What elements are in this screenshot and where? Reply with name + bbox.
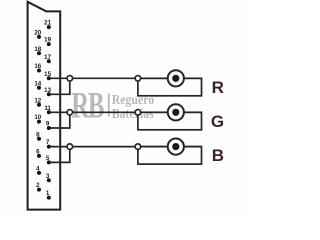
svg-text:5: 5 <box>46 155 50 162</box>
svg-text:21: 21 <box>44 20 51 27</box>
connector J1 (SCART) outline <box>28 2 61 210</box>
svg-text:7: 7 <box>46 139 50 146</box>
pin 9 <box>46 121 51 130</box>
pin 3 <box>46 173 51 182</box>
svg-text:Reguero: Reguero <box>112 92 154 107</box>
svg-text:16: 16 <box>34 63 41 70</box>
label R <box>212 78 224 97</box>
svg-text:4: 4 <box>36 166 40 173</box>
node junction G2 <box>135 110 141 116</box>
watermark text Reguero <box>112 92 154 107</box>
svg-text:1: 1 <box>46 190 50 197</box>
svg-text:11: 11 <box>44 105 51 112</box>
pin 5 <box>46 155 51 164</box>
watermark separator bar <box>108 93 110 116</box>
node junction B1 <box>67 144 73 150</box>
pin 18 <box>34 46 41 55</box>
RCA jack G body <box>138 112 202 130</box>
pin 6 <box>36 149 41 158</box>
pin 19 <box>44 37 51 46</box>
wire pin15 to RCA R <box>49 77 202 79</box>
node junction R1 <box>67 76 73 82</box>
svg-text:Baterías: Baterías <box>112 106 154 121</box>
svg-text:15: 15 <box>44 71 51 78</box>
svg-text:G: G <box>211 112 224 131</box>
node junction G1 <box>67 110 73 116</box>
svg-text:20: 20 <box>34 30 41 37</box>
svg-text:14: 14 <box>34 80 41 87</box>
pin 16 <box>34 63 41 72</box>
wire pin5 ground jog B <box>49 147 70 163</box>
pin 2 <box>36 182 41 191</box>
RCA jack R body <box>138 78 202 96</box>
svg-text:RB: RB <box>71 85 104 126</box>
wire pin7 to RCA B <box>49 146 202 148</box>
label B <box>212 146 224 165</box>
svg-text:6: 6 <box>36 149 40 156</box>
svg-text:12: 12 <box>34 97 41 104</box>
pin 8 <box>36 131 41 140</box>
svg-text:10: 10 <box>34 114 41 121</box>
svg-text:13: 13 <box>44 87 51 94</box>
svg-text:B: B <box>212 146 224 165</box>
pin 21 <box>44 20 51 29</box>
RCA jack R front circle <box>168 70 184 86</box>
pin 7 <box>46 139 51 148</box>
svg-text:R: R <box>212 78 224 97</box>
node junction B2 <box>135 144 141 150</box>
wire pin13 ground jog R <box>49 78 70 94</box>
svg-text:19: 19 <box>44 37 51 44</box>
RCA jack G front circle <box>168 104 184 120</box>
svg-text:9: 9 <box>46 121 50 128</box>
svg-text:17: 17 <box>44 54 51 61</box>
pin 4 <box>36 166 41 175</box>
svg-text:3: 3 <box>46 173 50 180</box>
watermark text Baterias <box>112 106 154 121</box>
pin 11 <box>44 105 51 114</box>
RCA jack B body <box>138 147 202 165</box>
pin 10 <box>34 114 41 123</box>
pin 20 <box>34 30 41 39</box>
svg-text:2: 2 <box>36 182 40 189</box>
pin 17 <box>44 54 51 63</box>
pin 13 <box>44 87 51 96</box>
watermark logo RB <box>71 85 104 126</box>
node junction R2 <box>135 76 141 82</box>
wire pin9 ground jog G <box>49 112 70 128</box>
wire pin11 to RCA G <box>49 111 202 113</box>
pin 15 <box>44 71 51 80</box>
svg-text:8: 8 <box>36 131 40 138</box>
pin 12 <box>34 97 41 106</box>
RCA jack B front circle <box>168 139 184 155</box>
pin 1 <box>46 190 51 199</box>
pin 14 <box>34 80 41 89</box>
label G <box>211 112 224 131</box>
svg-text:18: 18 <box>34 46 41 53</box>
